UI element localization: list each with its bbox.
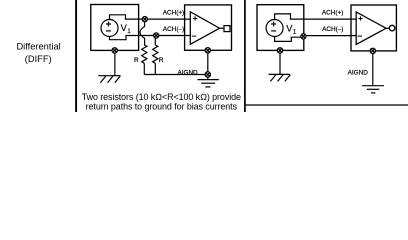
svg-text:Differential: Differential xyxy=(16,42,60,52)
terminal ACH(-) on source box edge (right, crossed circle) xyxy=(301,34,306,39)
wire: ACH(-) line from source box to amplifier - input (left) xyxy=(139,35,191,37)
value label V1 (left) xyxy=(121,23,132,35)
wire: ACH(-) terminal to amplifier - input (right) xyxy=(305,35,356,37)
wire: op-amp output to output pad (right) xyxy=(386,27,389,29)
svg-text:(DIFF): (DIFF) xyxy=(25,54,52,64)
wire: AIGND node to earth ground (left) xyxy=(207,77,209,79)
wire: bias return rail to AIGND node xyxy=(144,74,208,76)
value label V1 (right) xyxy=(286,23,297,35)
wire: amplifier box AIGND terminal down to AIGND node (left) xyxy=(207,50,209,74)
signal source enclosure box (left) xyxy=(91,5,139,51)
signal source enclosure box (right) xyxy=(257,5,304,51)
terminal: source box common at box bottom (right, crossed circle) xyxy=(277,48,282,53)
svg-text:ACH(+): ACH(+) xyxy=(322,10,343,17)
terminal AIGND on amplifier box bottom (right, crossed circle) xyxy=(370,48,375,53)
wire: ACH(+) node down to resistor R1, hop over ACH(-) wire xyxy=(140,19,145,45)
resistor R1 (left bias resistor) xyxy=(142,45,147,63)
wire: V1 bottom to ACH(-) line (left, staircase) xyxy=(110,36,139,40)
op-amp U2 (right PGIA triangle) xyxy=(356,12,386,45)
svg-text:ACH(–): ACH(–) xyxy=(163,26,184,33)
svg-text:ACH(+): ACH(+) xyxy=(163,10,184,17)
wire: ACH(+) line from source box to amplifier + input (right) xyxy=(304,18,356,20)
floating/chassis ground symbol (right) xyxy=(269,74,291,81)
caption: two resistors note (left cell) xyxy=(82,92,241,111)
instrumentation amplifier box (right) xyxy=(351,5,396,51)
wire: amplifier box AIGND terminal down to earth ground (right) xyxy=(372,51,374,86)
terminal AIGND on amplifier box bottom (left, crossed circle) xyxy=(205,48,210,53)
op-amp - input marker (left) xyxy=(192,35,196,37)
wire: ACH(+) line from source box to amplifier + input (left) xyxy=(139,18,191,20)
op-amp output pad (left, small square) xyxy=(224,26,230,32)
svg-text:R: R xyxy=(134,57,139,64)
wire: op-amp output to output pad (left) xyxy=(220,27,224,29)
terminal ACH(+) (left, crossed circle) xyxy=(142,17,147,22)
resistor R2 (right bias resistor) xyxy=(153,45,158,63)
svg-text:1: 1 xyxy=(293,29,297,36)
node AIGND (left, crossed circle) xyxy=(205,72,210,77)
svg-text:R: R xyxy=(159,57,164,64)
terminal: source box common at box bottom (left, crossed circle) xyxy=(112,48,117,53)
table column divider 1 xyxy=(75,0,77,112)
wire: source common down to floating ground (left) xyxy=(114,53,116,76)
earth ground symbol (left) xyxy=(198,80,219,87)
table bottom border of right cell xyxy=(245,104,408,106)
op-amp - input marker (right) xyxy=(358,35,362,37)
svg-text:AIGND: AIGND xyxy=(348,70,369,77)
voltage source V1 (right): circle with + and - xyxy=(266,20,283,37)
terminal ACH(-) (left, crossed circle) xyxy=(154,33,159,38)
wire: V1 top to ACH(+) line (right, staircase) xyxy=(275,14,304,20)
table column divider 2 xyxy=(244,0,246,112)
svg-text:1: 1 xyxy=(127,28,131,35)
voltage source V1 (left): circle with + and - xyxy=(101,20,118,37)
op-amp + input marker (right) xyxy=(358,16,362,20)
wire: V1 top to ACH(+) line (left, staircase) xyxy=(110,15,139,20)
earth ground symbol (right) xyxy=(362,86,384,93)
wire: V1 bottom to ACH(-) terminal (right, staircase) xyxy=(275,36,302,41)
op-amp + input marker (left) xyxy=(193,16,197,20)
op-amp output pad (right, small square) xyxy=(389,25,395,31)
floating/chassis ground symbol (left) xyxy=(98,76,120,83)
row label "Differential (DIFF)" xyxy=(16,42,60,65)
wire: ACH(-) node down to resistor R2 xyxy=(154,36,156,46)
svg-text:ACH(–): ACH(–) xyxy=(322,26,343,33)
wire: resistor R1 bottom to bias return rail xyxy=(143,63,145,74)
op-amp U1 (left PGIA triangle) xyxy=(190,12,219,45)
wire: source common down to floating ground (right) xyxy=(279,53,281,74)
instrumentation amplifier box (left) xyxy=(185,5,232,50)
wire: resistor R2 bottom to bias return rail xyxy=(154,63,156,74)
svg-text:return paths to ground for bia: return paths to ground for bias currents xyxy=(86,101,238,111)
svg-text:AIGND: AIGND xyxy=(177,69,198,76)
